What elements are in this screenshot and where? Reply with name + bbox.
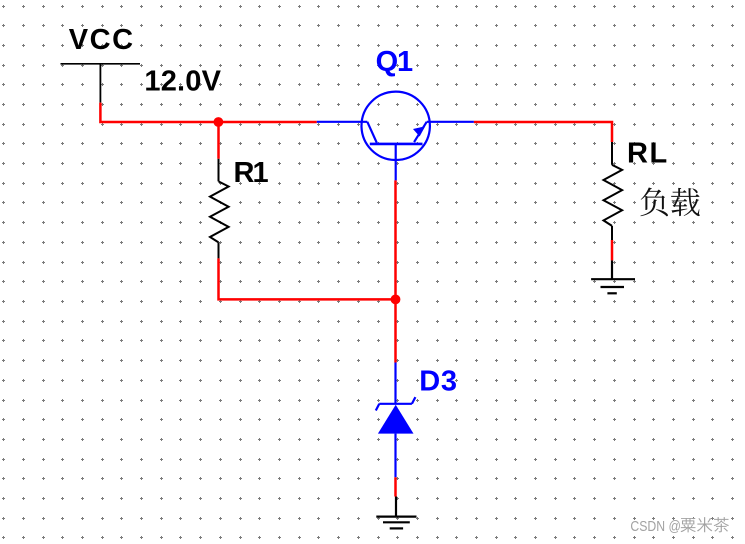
svg-text:Q1: Q1 bbox=[376, 46, 413, 78]
emitter arrow Q1 bbox=[413, 126, 425, 136]
svg-text:VCC: VCC bbox=[69, 24, 135, 56]
wire Q1 emitter to RL pin 1 bbox=[474, 122, 612, 142]
wire Q1 base to node B bbox=[394, 180, 397, 299]
zener D3 anode triangle bbox=[378, 405, 414, 434]
svg-text:R1: R1 bbox=[234, 157, 269, 189]
svg-text:RL: RL bbox=[627, 138, 669, 170]
wire node A to Q1 collector bbox=[218, 121, 316, 124]
label 负载 (load) bbox=[640, 188, 699, 217]
zener diode D3 bbox=[376, 363, 416, 478]
wire node B to D3 cathode bbox=[394, 299, 397, 362]
svg-text:D3: D3 bbox=[419, 366, 458, 398]
svg-text:CSDN @: CSDN @ bbox=[630, 518, 681, 535]
resistor RL bbox=[604, 142, 623, 240]
resistor R1 bbox=[210, 159, 229, 259]
wire R1 pin 2 to node B bbox=[219, 258, 396, 299]
junction node A bbox=[214, 117, 224, 127]
svg-text:12.0V: 12.0V bbox=[144, 66, 221, 98]
ground below D3 bbox=[376, 497, 416, 529]
junction node B bbox=[391, 295, 401, 305]
power symbol VCC bbox=[61, 64, 141, 103]
wire D3 anode to ground bbox=[394, 477, 397, 496]
transistor Q1 bbox=[317, 92, 474, 181]
wire node A to R1 pin 1 bbox=[217, 122, 220, 159]
ground below RL bbox=[591, 260, 635, 293]
watermark CSDN bbox=[630, 517, 730, 536]
wire RL pin 2 to ground bbox=[611, 240, 614, 260]
wire VCC to node A bbox=[100, 103, 218, 122]
